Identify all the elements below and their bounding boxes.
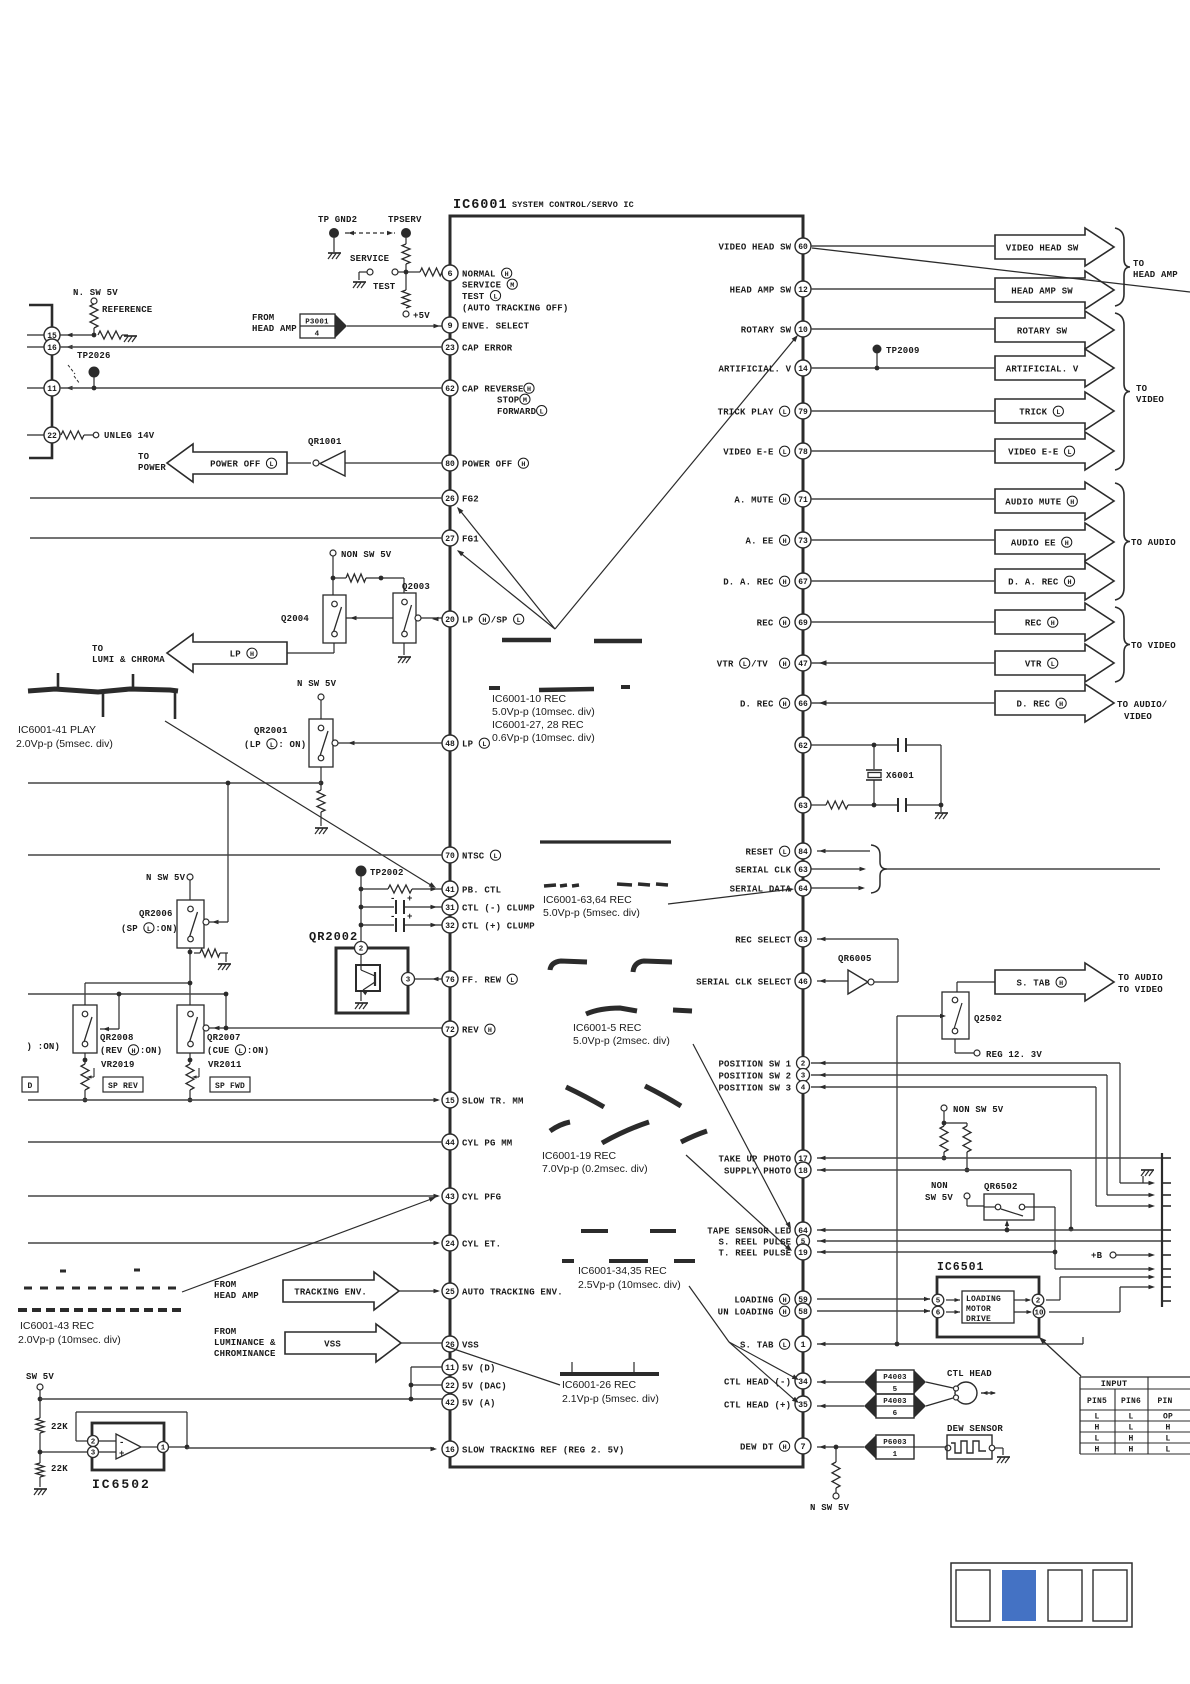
svg-text:H: H	[783, 1309, 787, 1317]
svg-text:POWER: POWER	[138, 463, 166, 473]
svg-text:H: H	[250, 651, 254, 659]
svg-text:REC: REC	[757, 618, 774, 628]
svg-text:27: 27	[445, 535, 455, 544]
svg-text:REG 12. 3V: REG 12. 3V	[986, 1050, 1042, 1060]
svg-text:2.0Vp-p (10msec. div): 2.0Vp-p (10msec. div)	[18, 1334, 121, 1346]
svg-text:S. TAB: S. TAB	[1016, 978, 1050, 988]
svg-text:1: 1	[800, 1340, 805, 1350]
svg-text:Q2004: Q2004	[281, 614, 309, 624]
svg-text:Q2502: Q2502	[974, 1014, 1002, 1024]
svg-text:16: 16	[445, 1446, 455, 1455]
svg-text:H: H	[1065, 540, 1069, 548]
svg-text:L: L	[1128, 1413, 1133, 1422]
svg-text:47: 47	[798, 660, 808, 669]
svg-text:CTL (-) CLUMP: CTL (-) CLUMP	[462, 903, 535, 913]
svg-text:TO AUDIO/: TO AUDIO/	[1117, 700, 1167, 710]
svg-text:H: H	[783, 701, 787, 709]
svg-text:FROM: FROM	[252, 313, 274, 323]
svg-text:REFERENCE: REFERENCE	[102, 305, 153, 315]
svg-text:MOTOR: MOTOR	[966, 1305, 991, 1314]
svg-text:2: 2	[1036, 1298, 1041, 1306]
svg-text:L: L	[1067, 449, 1071, 457]
svg-text:UNLEG 14V: UNLEG 14V	[104, 431, 155, 441]
svg-text:4: 4	[801, 1085, 806, 1093]
svg-text:19: 19	[798, 1249, 808, 1258]
svg-text:5V (D): 5V (D)	[462, 1363, 496, 1373]
svg-text:10: 10	[798, 326, 808, 335]
svg-text:22: 22	[47, 432, 57, 441]
svg-text:11: 11	[47, 385, 57, 394]
svg-text:POWER OFF: POWER OFF	[210, 459, 260, 469]
svg-text:TO AUDIO: TO AUDIO	[1118, 973, 1163, 983]
svg-text:L: L	[482, 741, 486, 749]
svg-text:6: 6	[936, 1310, 941, 1318]
svg-text:: ON): : ON)	[278, 740, 306, 750]
svg-text:5V (A): 5V (A)	[462, 1398, 496, 1408]
svg-text:62: 62	[798, 742, 808, 751]
svg-text:5.0Vp-p (10msec. div): 5.0Vp-p (10msec. div)	[492, 706, 595, 718]
svg-text:TO: TO	[138, 452, 150, 462]
svg-text:ARTIFICIAL. V: ARTIFICIAL. V	[718, 364, 791, 374]
svg-text:S. TAB: S. TAB	[740, 1340, 774, 1350]
svg-text:P3001: P3001	[305, 319, 329, 327]
svg-text:10: 10	[1034, 1310, 1044, 1318]
svg-text:9: 9	[447, 321, 452, 331]
svg-text:3: 3	[406, 977, 411, 985]
svg-text:SERVICE: SERVICE	[462, 280, 502, 290]
svg-text:VIDEO HEAD SW: VIDEO HEAD SW	[1006, 243, 1079, 253]
svg-text:+: +	[119, 1449, 125, 1459]
svg-text:2: 2	[801, 1061, 806, 1069]
svg-text:70: 70	[445, 852, 455, 861]
svg-text:TO: TO	[92, 644, 104, 654]
svg-text:VTR: VTR	[1025, 659, 1042, 669]
svg-text:TRICK PLAY: TRICK PLAY	[718, 407, 774, 417]
svg-text:H: H	[783, 1444, 787, 1452]
svg-text:TP2026: TP2026	[77, 351, 111, 361]
svg-text:1: 1	[161, 1445, 166, 1453]
svg-text:P4003: P4003	[883, 1374, 907, 1382]
svg-text:FORWARD: FORWARD	[497, 407, 537, 417]
svg-text:LP: LP	[462, 615, 474, 625]
svg-text:CYL ET.: CYL ET.	[462, 1239, 501, 1249]
svg-text:63: 63	[798, 802, 808, 811]
svg-text:D. REC: D. REC	[740, 699, 774, 709]
svg-text:QR6005: QR6005	[838, 954, 872, 964]
svg-text:H: H	[488, 1027, 492, 1035]
svg-text:D. A. REC: D. A. REC	[1008, 577, 1059, 587]
svg-text:TO: TO	[1133, 259, 1145, 269]
svg-text:66: 66	[798, 700, 808, 709]
svg-text:16: 16	[47, 344, 57, 353]
svg-text:HEAD AMP SW: HEAD AMP SW	[1011, 286, 1073, 296]
svg-text:HEAD AMP: HEAD AMP	[214, 1291, 259, 1301]
svg-text:SERVICE: SERVICE	[350, 254, 390, 264]
svg-text:ROTARY SW: ROTARY SW	[741, 325, 792, 335]
svg-text:POSITION SW 1: POSITION SW 1	[718, 1059, 791, 1069]
svg-text:IC6001-34,35 REC: IC6001-34,35 REC	[578, 1265, 667, 1277]
svg-text:73: 73	[798, 537, 808, 546]
svg-text:TRICK: TRICK	[1019, 407, 1047, 417]
svg-text:HEAD AMP SW: HEAD AMP SW	[730, 285, 792, 295]
svg-text:67: 67	[798, 578, 808, 587]
svg-text:76: 76	[445, 976, 455, 985]
svg-text:VIDEO: VIDEO	[1124, 712, 1152, 722]
svg-text:H: H	[1128, 1435, 1133, 1444]
svg-text:ARTIFICIAL. V: ARTIFICIAL. V	[1006, 364, 1079, 374]
svg-text:25: 25	[445, 1288, 455, 1297]
svg-text:REC: REC	[1025, 618, 1042, 628]
svg-text:FG1: FG1	[462, 534, 479, 544]
svg-text:69: 69	[798, 619, 808, 628]
svg-text:DRIVE: DRIVE	[966, 1315, 991, 1324]
svg-text:H: H	[783, 620, 787, 628]
svg-text:L: L	[147, 926, 151, 934]
svg-text::ON): :ON)	[247, 1046, 269, 1056]
svg-text:H: H	[482, 617, 486, 625]
svg-text:2.5Vp-p (10msec. div): 2.5Vp-p (10msec. div)	[578, 1279, 681, 1291]
svg-text:43: 43	[445, 1193, 455, 1202]
svg-text:0.6Vp-p (10msec. div): 0.6Vp-p (10msec. div)	[492, 732, 595, 744]
svg-text:(LP: (LP	[244, 740, 261, 750]
svg-text:CTL (+) CLUMP: CTL (+) CLUMP	[462, 921, 535, 931]
svg-text:TP2009: TP2009	[886, 346, 920, 356]
svg-text:POWER OFF: POWER OFF	[462, 459, 512, 469]
svg-text:N. SW 5V: N. SW 5V	[73, 288, 118, 298]
svg-text:(REV: (REV	[100, 1046, 123, 1056]
svg-text:H: H	[527, 386, 531, 394]
svg-text:(SP: (SP	[121, 924, 138, 934]
svg-text:(CUE: (CUE	[207, 1046, 230, 1056]
svg-text:FROM: FROM	[214, 1327, 236, 1337]
svg-text:46: 46	[798, 978, 808, 987]
svg-text:H: H	[783, 497, 787, 505]
svg-text:3: 3	[91, 1450, 96, 1458]
svg-text:H: H	[131, 1048, 135, 1056]
svg-text:20: 20	[445, 616, 455, 625]
svg-text:PB. CTL: PB. CTL	[462, 885, 501, 895]
svg-text:LUMI & CHROMA: LUMI & CHROMA	[92, 655, 165, 665]
svg-text:VSS: VSS	[462, 1340, 479, 1350]
svg-text:3: 3	[801, 1073, 806, 1081]
svg-text:H: H	[1059, 980, 1063, 988]
svg-text:) :ON): ) :ON)	[27, 1042, 61, 1052]
svg-text:P6003: P6003	[883, 1439, 907, 1447]
svg-text:FROM: FROM	[214, 1280, 236, 1290]
svg-text:IC6001-5 REC: IC6001-5 REC	[573, 1022, 642, 1034]
svg-text:-: -	[390, 912, 396, 922]
svg-text:TO VIDEO: TO VIDEO	[1118, 985, 1163, 995]
svg-text:12: 12	[798, 286, 808, 295]
svg-text:TO: TO	[1136, 384, 1148, 394]
svg-text:L: L	[1051, 661, 1055, 669]
svg-text:QR2006: QR2006	[139, 909, 173, 919]
svg-text:REC SELECT: REC SELECT	[735, 935, 791, 945]
svg-text:79: 79	[798, 408, 808, 417]
svg-text:NORMAL: NORMAL	[462, 269, 496, 279]
svg-text:TPSERV: TPSERV	[388, 215, 422, 225]
svg-text:IC6001-43 REC: IC6001-43 REC	[20, 1320, 95, 1332]
svg-text:HEAD AMP: HEAD AMP	[1133, 270, 1178, 280]
svg-text:SLOW TRACKING REF (REG 2. 5V): SLOW TRACKING REF (REG 2. 5V)	[462, 1445, 624, 1455]
svg-text:5.0Vp-p (2msec. div): 5.0Vp-p (2msec. div)	[573, 1035, 670, 1047]
svg-text:LUMINANCE &: LUMINANCE &	[214, 1338, 276, 1348]
svg-text:AUDIO MUTE: AUDIO MUTE	[1005, 497, 1061, 507]
svg-text:H: H	[1070, 499, 1074, 507]
svg-text:48: 48	[445, 740, 455, 749]
svg-text:FG2: FG2	[462, 494, 479, 504]
svg-text:H: H	[783, 538, 787, 546]
svg-text:REV: REV	[462, 1025, 479, 1035]
svg-text:IC6502: IC6502	[92, 1477, 151, 1492]
svg-text:CYL PG MM: CYL PG MM	[462, 1138, 512, 1148]
svg-text:TAPE SENSOR LED: TAPE SENSOR LED	[707, 1226, 791, 1236]
svg-text:L: L	[1056, 409, 1060, 417]
svg-text:VIDEO HEAD SW: VIDEO HEAD SW	[718, 242, 791, 252]
svg-text:H: H	[1094, 1424, 1099, 1433]
svg-text:D. REC: D. REC	[1016, 699, 1050, 709]
svg-text:ROTARY SW: ROTARY SW	[1017, 326, 1068, 336]
svg-text:-: -	[390, 894, 396, 904]
svg-text:71: 71	[798, 496, 808, 505]
svg-text:PIN5: PIN5	[1087, 1397, 1107, 1406]
svg-text:VR2019: VR2019	[101, 1060, 135, 1070]
svg-text:L: L	[783, 849, 787, 857]
svg-text:SERIAL CLK: SERIAL CLK	[735, 865, 791, 875]
svg-text:SW 5V: SW 5V	[26, 1372, 54, 1382]
svg-text:H: H	[783, 579, 787, 587]
svg-text:/SP: /SP	[491, 615, 508, 625]
svg-text:QR2001: QR2001	[254, 726, 288, 736]
svg-text:VR2011: VR2011	[208, 1060, 242, 1070]
svg-text:LOADING: LOADING	[966, 1295, 1001, 1304]
svg-text:IC6001-41 PLAY: IC6001-41 PLAY	[18, 724, 96, 736]
svg-text:TP GND2: TP GND2	[318, 215, 357, 225]
svg-text:22K: 22K	[51, 1464, 68, 1474]
svg-text:72: 72	[445, 1026, 455, 1035]
svg-text:VIDEO E-E: VIDEO E-E	[1008, 447, 1059, 457]
svg-text:22K: 22K	[51, 1422, 68, 1432]
svg-text:H: H	[1051, 620, 1055, 628]
svg-text:H: H	[1128, 1446, 1133, 1455]
svg-text:5: 5	[936, 1298, 941, 1306]
svg-text:IC6001-63,64 REC: IC6001-63,64 REC	[543, 894, 632, 906]
svg-text:H: H	[521, 461, 525, 469]
svg-text:IC6001-27, 28 REC: IC6001-27, 28 REC	[492, 719, 584, 731]
svg-text:TP2002: TP2002	[370, 868, 404, 878]
svg-text:T. REEL PULSE: T. REEL PULSE	[718, 1248, 791, 1258]
svg-text:QR1001: QR1001	[308, 437, 342, 447]
svg-text:L: L	[1128, 1424, 1133, 1433]
svg-text:Q2003: Q2003	[402, 582, 430, 592]
svg-text:X6001: X6001	[886, 771, 914, 781]
svg-text:VTR: VTR	[717, 659, 734, 669]
svg-text:5V (DAC): 5V (DAC)	[462, 1381, 507, 1391]
svg-text:SYSTEM CONTROL/SERVO IC: SYSTEM CONTROL/SERVO IC	[512, 200, 634, 210]
svg-text:35: 35	[798, 1401, 808, 1410]
svg-text:HEAD AMP: HEAD AMP	[252, 324, 297, 334]
svg-text:NTSC: NTSC	[462, 851, 485, 861]
svg-text:CTL HEAD (-): CTL HEAD (-)	[724, 1377, 791, 1387]
svg-text:L: L	[783, 449, 787, 457]
svg-text:LP: LP	[230, 649, 242, 659]
svg-text:44: 44	[445, 1139, 455, 1148]
svg-text:L: L	[1094, 1435, 1099, 1444]
svg-text:62: 62	[445, 385, 455, 394]
svg-text:IC6001: IC6001	[453, 198, 508, 213]
svg-text:41: 41	[445, 886, 455, 895]
svg-text:5: 5	[893, 1386, 898, 1394]
svg-text:A. EE: A. EE	[746, 536, 774, 546]
svg-text:INPUT: INPUT	[1101, 1379, 1128, 1389]
svg-text:N SW 5V: N SW 5V	[146, 873, 186, 883]
svg-text:63: 63	[798, 936, 808, 945]
svg-text:UN LOADING: UN LOADING	[718, 1307, 774, 1317]
svg-text:L: L	[493, 294, 497, 302]
svg-text:D: D	[27, 1082, 32, 1091]
svg-text:LOADING: LOADING	[734, 1295, 773, 1305]
svg-text:34: 34	[798, 1378, 808, 1387]
svg-text:QR6502: QR6502	[984, 1182, 1018, 1192]
svg-text:L: L	[783, 409, 787, 417]
svg-text:80: 80	[445, 460, 455, 469]
svg-text:SP FWD: SP FWD	[215, 1082, 245, 1091]
svg-text:L: L	[270, 742, 274, 750]
svg-text:6: 6	[447, 269, 452, 279]
svg-text:L: L	[238, 1048, 242, 1056]
svg-text:26: 26	[445, 495, 455, 504]
svg-text:31: 31	[445, 904, 455, 913]
svg-text:QR2008: QR2008	[100, 1033, 134, 1043]
svg-text:AUTO TRACKING ENV.: AUTO TRACKING ENV.	[462, 1287, 563, 1297]
svg-text:84: 84	[798, 848, 808, 857]
svg-text:H: H	[1059, 701, 1063, 709]
svg-text:L: L	[743, 661, 747, 669]
svg-text:2.0Vp-p (5msec. div): 2.0Vp-p (5msec. div)	[16, 738, 113, 750]
svg-text:H: H	[505, 271, 509, 279]
svg-text:CAP ERROR: CAP ERROR	[462, 343, 513, 353]
svg-text:2.1Vp-p (5msec. div): 2.1Vp-p (5msec. div)	[562, 1393, 659, 1405]
svg-text:SERIAL CLK SELECT: SERIAL CLK SELECT	[696, 977, 792, 987]
svg-text:M: M	[523, 397, 527, 405]
svg-text:SP REV: SP REV	[108, 1082, 138, 1091]
svg-text:IC6501: IC6501	[937, 1261, 984, 1274]
svg-text:POSITION SW 2: POSITION SW 2	[718, 1071, 791, 1081]
svg-text:22: 22	[445, 1382, 455, 1391]
svg-text:/TV: /TV	[751, 659, 768, 669]
svg-text:S. REEL PULSE: S. REEL PULSE	[718, 1237, 791, 1247]
svg-text:L: L	[1094, 1413, 1099, 1422]
svg-text:1: 1	[893, 1451, 898, 1459]
svg-text:64: 64	[798, 885, 808, 894]
svg-text:FF. REW: FF. REW	[462, 975, 502, 985]
svg-text:NON: NON	[931, 1181, 948, 1191]
svg-text:STOP: STOP	[497, 395, 520, 405]
svg-text:N SW 5V: N SW 5V	[297, 679, 337, 689]
svg-text:+: +	[407, 894, 413, 904]
svg-text:4: 4	[315, 331, 320, 339]
svg-text:7.0Vp-p (0.2msec. div): 7.0Vp-p (0.2msec. div)	[542, 1163, 648, 1175]
svg-text:42: 42	[445, 1399, 455, 1408]
svg-text:VIDEO E-E: VIDEO E-E	[723, 447, 774, 457]
svg-text:CYL PFG: CYL PFG	[462, 1192, 501, 1202]
svg-text:-: -	[119, 1438, 125, 1448]
svg-text:L: L	[517, 617, 521, 625]
svg-text:H: H	[1067, 579, 1071, 587]
svg-text:VIDEO: VIDEO	[1136, 395, 1164, 405]
svg-text:QR2002: QR2002	[309, 930, 358, 944]
svg-text:+: +	[407, 912, 413, 922]
svg-text:OP: OP	[1163, 1413, 1173, 1422]
svg-text:32: 32	[445, 922, 455, 931]
svg-text:CAP REVERSE: CAP REVERSE	[462, 384, 524, 394]
svg-text:CTL HEAD (+): CTL HEAD (+)	[724, 1400, 791, 1410]
svg-text:L: L	[783, 1342, 787, 1350]
svg-text:L: L	[1165, 1435, 1170, 1444]
svg-text:L: L	[493, 853, 497, 861]
svg-text::ON): :ON)	[155, 924, 177, 934]
svg-text:IC6001-10 REC: IC6001-10 REC	[492, 693, 567, 705]
svg-text:ENVE. SELECT: ENVE. SELECT	[462, 321, 530, 331]
svg-text:IC6001-19 REC: IC6001-19 REC	[542, 1150, 617, 1162]
svg-text::ON): :ON)	[140, 1046, 162, 1056]
svg-text:TEST: TEST	[462, 292, 485, 302]
svg-text:5.0Vp-p (5msec. div): 5.0Vp-p (5msec. div)	[543, 907, 640, 919]
svg-text:(AUTO TRACKING OFF): (AUTO TRACKING OFF)	[462, 303, 568, 313]
svg-text:NON SW 5V: NON SW 5V	[953, 1105, 1004, 1115]
svg-text:PIN6: PIN6	[1121, 1397, 1141, 1406]
svg-text:M: M	[510, 282, 514, 290]
svg-text:58: 58	[798, 1308, 808, 1317]
svg-text:TRACKING ENV.: TRACKING ENV.	[294, 1287, 367, 1297]
svg-text:LP: LP	[462, 739, 474, 749]
svg-text:24: 24	[445, 1240, 455, 1249]
svg-text:+B: +B	[1091, 1251, 1103, 1261]
svg-text:23: 23	[445, 344, 455, 353]
svg-text:H: H	[1094, 1446, 1099, 1455]
svg-text:2: 2	[359, 946, 364, 954]
svg-text:P4003: P4003	[883, 1398, 907, 1406]
svg-text:6: 6	[893, 1410, 898, 1418]
svg-text:TEST: TEST	[373, 282, 396, 292]
svg-text:18: 18	[798, 1167, 808, 1176]
svg-text:POSITION SW 3: POSITION SW 3	[718, 1083, 791, 1093]
svg-text:63: 63	[798, 866, 808, 875]
svg-text:VSS: VSS	[324, 1339, 341, 1349]
svg-text:SW 5V: SW 5V	[925, 1193, 953, 1203]
svg-text:2: 2	[91, 1439, 96, 1447]
svg-text:H: H	[783, 661, 787, 669]
svg-text:+5V: +5V	[413, 311, 430, 321]
svg-text:TO AUDIO: TO AUDIO	[1131, 538, 1176, 548]
svg-text:DEW DT: DEW DT	[740, 1442, 774, 1452]
svg-text:IC6001-26 REC: IC6001-26 REC	[562, 1379, 637, 1391]
svg-text:CHROMINANCE: CHROMINANCE	[214, 1349, 276, 1359]
svg-text:L: L	[269, 461, 273, 469]
svg-text:60: 60	[798, 243, 808, 252]
svg-text:PIN: PIN	[1157, 1397, 1172, 1406]
svg-text:NON SW 5V: NON SW 5V	[341, 550, 392, 560]
svg-text:D. A. REC: D. A. REC	[723, 577, 774, 587]
svg-text:L: L	[510, 977, 514, 985]
svg-text:14: 14	[798, 365, 808, 374]
svg-text:11: 11	[445, 1364, 455, 1373]
svg-text:QR2007: QR2007	[207, 1033, 241, 1043]
svg-text:RESET: RESET	[746, 847, 774, 857]
svg-text:H: H	[783, 1297, 787, 1305]
svg-text:DEW SENSOR: DEW SENSOR	[947, 1424, 1003, 1434]
svg-text:CTL HEAD: CTL HEAD	[947, 1369, 992, 1379]
